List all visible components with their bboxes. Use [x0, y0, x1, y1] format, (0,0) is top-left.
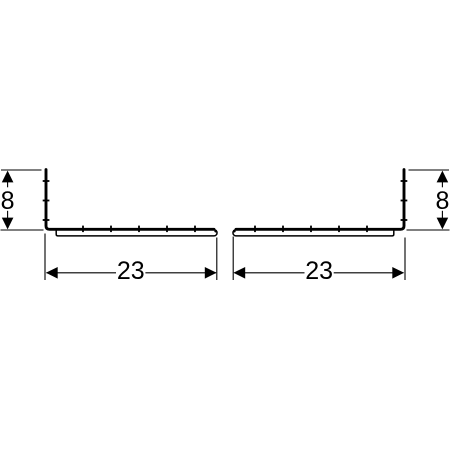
right height dimension: down arrowhead [437, 218, 449, 230]
left profile fold knob [214, 230, 217, 233]
svg-text:23: 23 [305, 257, 333, 285]
left height dimension: down arrowhead [2, 218, 14, 230]
left width dimension: dimension line [47, 272, 216, 274]
right height dimension: dimension line [441, 181, 443, 219]
svg-text:23: 23 [117, 257, 145, 285]
left profile serration ticks on vertical leg [43, 181, 50, 220]
left profile serration ticks on flange [83, 226, 195, 233]
right width dimension: right arrowhead [392, 267, 404, 279]
svg-text:8: 8 [435, 187, 449, 215]
left width dimension: left arrowhead [46, 267, 58, 279]
right width dimension: extension lines [233, 237, 405, 281]
left profile hem (fold at right end, underside line, turned-up edge) [56, 230, 217, 236]
right width dimension: dimension line [235, 272, 404, 274]
left width dimension: extension lines [45, 234, 217, 281]
left height dimension: up arrowhead [2, 171, 14, 183]
right profile serration ticks on vertical leg [401, 181, 408, 220]
right profile serration ticks on flange [255, 226, 367, 233]
right height dimension: up arrowhead [437, 171, 449, 183]
right height dimension: extension lines [407, 170, 450, 230]
left angle profile (thick leg + flange) [46, 170, 214, 230]
right width dimension: left arrowhead [233, 267, 245, 279]
left height dimension: dimension line [7, 181, 9, 219]
right angle profile (thick leg + flange) [236, 170, 404, 230]
right profile hem (fold at left end, underside line, turned-up edge) [233, 230, 394, 236]
left height dimension: extension lines [1, 170, 44, 230]
svg-text:8: 8 [1, 187, 15, 215]
right profile fold knob [233, 230, 236, 233]
left width dimension: right arrowhead [205, 267, 217, 279]
